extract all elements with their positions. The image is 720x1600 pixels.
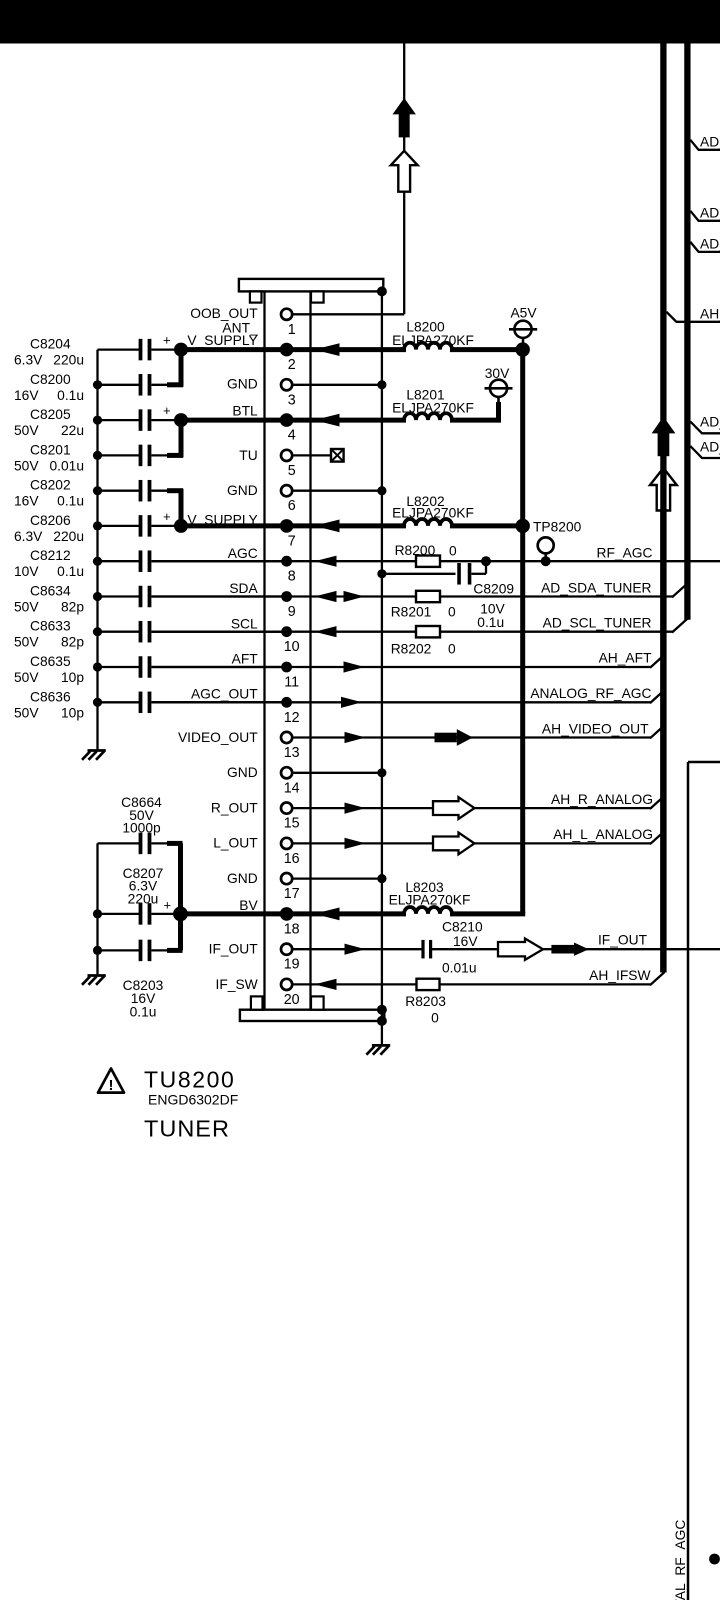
node GND label pin17 [227,871,258,886]
svg-text:12: 12 [284,710,300,726]
pin 3 [281,379,296,408]
wire IF_OUT row [283,948,720,950]
warning symbol [98,1069,124,1095]
pin 20 [281,979,300,1008]
junction BTL [174,413,188,427]
svg-text:2: 2 [288,357,296,373]
svg-text:ELJPA270KF: ELJPA270KF [392,401,474,416]
capacitor C8200 [14,372,150,403]
svg-text:C8212: C8212 [30,548,71,563]
svg-text:82p: 82p [61,600,84,615]
wire pin3 to GND bus [283,384,382,386]
wire row 10 cap to pin [152,631,287,633]
svg-text:AH_VID: AH_VID [700,306,720,321]
node L_OUT label [213,836,258,851]
svg-text:0.1u: 0.1u [130,1005,157,1020]
wire ANT_V_SUPPLY (pin2 to L8200) [181,347,523,352]
connector bottom notch left [251,996,263,1009]
svg-text:C8200: C8200 [30,372,71,387]
svg-text:R8203: R8203 [405,994,446,1009]
svg-text:AGC_OUT: AGC_OUT [191,686,258,701]
wire AGC_OUT row [152,690,665,703]
svg-text:5: 5 [288,463,296,479]
svg-text:50V: 50V [14,458,39,473]
svg-text:10p: 10p [61,705,84,720]
wire SCL row [152,619,688,633]
block arrow L audio (open) [433,833,474,855]
part number ENGD6302DF [148,1092,238,1108]
wire IF_SW row [283,972,665,985]
pin 13 [281,732,300,761]
svg-text:C8201: C8201 [30,442,71,457]
node GND label pin14 [227,765,258,780]
bus AD signals (right) [684,43,690,620]
wire pin5 to TU termination [283,454,332,456]
junction GND bottom bar top [377,1005,387,1015]
svg-text:16V: 16V [14,388,39,403]
junction A5V / L8200 [516,342,530,356]
node AD tap 1 [690,134,720,150]
capacitor C8209 [382,561,514,630]
wire C8204 to ANT_V_SUPPLY node [152,348,182,350]
inductor L8200 [392,319,474,349]
svg-text:10V: 10V [14,564,39,579]
pin 6 [281,485,296,514]
svg-text:A5V: A5V [510,306,537,321]
arrow into pin10 [315,626,337,637]
svg-text:!: ! [109,1077,114,1094]
svg-text:22u: 22u [61,423,84,438]
svg-text:RF_AGC: RF_AGC [597,546,653,561]
svg-text:VIDEO_OUT: VIDEO_OUT [178,730,258,745]
svg-text:0: 0 [431,1011,439,1026]
node AD tap 5 [690,440,720,459]
ground [366,1045,390,1054]
pin 1 [281,309,296,338]
svg-text:GND: GND [227,376,258,391]
ground [82,976,106,985]
svg-text:50V: 50V [14,705,39,720]
wire BTL (pin4 to L8201) [181,418,501,423]
node SDA label [229,581,258,596]
node BV label [239,898,258,913]
svg-text:GND: GND [227,765,258,780]
pin 12 [281,697,299,726]
svg-text:GND: GND [227,483,258,498]
junction BV [173,907,188,922]
svg-text:15: 15 [284,816,300,832]
svg-text:SCL: SCL [231,616,258,631]
node GND label pin6 [227,483,258,498]
wire pin17 to GND bus [283,877,382,879]
GND bus wire inside connector [381,291,383,1045]
node AFT label [232,652,259,667]
svg-text:18: 18 [284,921,300,937]
node AH_R_ANALOG label [551,792,653,807]
svg-text:50V: 50V [14,423,39,438]
power A5V [509,306,537,350]
capacitor C8634 [14,584,150,615]
svg-text:AGC: AGC [228,546,258,561]
node IF_SW label [216,977,258,992]
arrow out of pin19 [345,944,366,955]
wire L_OUT row [283,831,665,844]
wire AFT row [152,655,665,668]
svg-text:8: 8 [288,569,296,585]
arrow out of pin12 [341,697,362,708]
wire C8200 elbow to ANT_V_SUPPLY node [152,350,184,387]
svg-text:TUNER: TUNER [144,1116,230,1142]
svg-text:30V: 30V [485,366,510,381]
svg-text:50V: 50V [14,635,39,650]
svg-text:C8635: C8635 [30,654,71,669]
junction ANT_V_SUPPLY [174,343,188,357]
test point TP8200 [533,520,582,562]
svg-text:AFT: AFT [232,652,259,667]
svg-text:+: + [163,333,171,348]
svg-text:0.1u: 0.1u [57,388,84,403]
bus AH signals (left) [660,43,666,972]
svg-text:20: 20 [284,992,300,1008]
node TU label [239,448,257,463]
node SCL label [231,616,258,631]
node ANT_V_SUPPLY label [187,320,258,348]
svg-text:C8633: C8633 [30,619,71,634]
svg-text:+: + [163,509,171,524]
svg-text:6.3V: 6.3V [14,353,43,368]
block arrow IF out (open) [498,939,543,960]
node V_SUPPLY label [187,512,257,527]
wire row 11 cap to pin [152,666,287,668]
svg-text:220u: 220u [53,529,84,544]
svg-text:AD_SCL: AD_SCL [700,440,720,455]
svg-text:C8206: C8206 [30,513,71,528]
capacitor C8206 [14,509,171,544]
svg-text:AH_R_ANALOG: AH_R_ANALOG [551,792,653,807]
node AD tap 3 [690,236,720,252]
node AGC_OUT label [191,686,258,701]
arrow into pin2 [314,343,340,356]
bus AH segment over arrow [660,470,666,972]
termination TU (boxed X) [331,449,344,462]
wire row 8 cap to pin [152,560,287,562]
sheet border bar [0,0,720,44]
junction GND top [377,286,387,296]
svg-text:IF_SW: IF_SW [216,977,258,992]
node AH_AFT label [599,651,652,666]
ground rail (left capacitor bank) [93,350,102,750]
svg-text:14: 14 [284,780,300,796]
wire AGC row (pin8 to RF_AGC) [152,560,720,562]
junction (IF block, edge) [709,1554,720,1565]
node AH tap [666,306,720,322]
arrow into pin20 [315,979,337,990]
svg-text:AD_SCL: AD_SCL [700,205,720,220]
arrow up filled (AH bus) [652,417,676,457]
inductor L8201 [392,388,474,421]
pin 18 [280,907,300,937]
junction GND bottom bar bottom [377,1016,387,1026]
component TUNER name [144,1116,230,1142]
pin 5 [281,450,296,479]
pin 2 [280,343,296,373]
capacitor C8635 [14,654,150,685]
svg-text:50V: 50V [14,670,39,685]
svg-text:C8205: C8205 [30,407,71,422]
arrow up filled (OOB feed) [393,98,416,137]
pin 15 [281,803,300,832]
block arrow R audio (open) [433,797,474,819]
capacitor C8207 [98,866,172,925]
resistor R8202 [391,626,456,657]
arrow out of pin9 [344,591,365,602]
wire C8664/C8203 elbow to BV node [152,843,183,950]
svg-text:AH_IFSW: AH_IFSW [589,968,650,983]
node ANALOG_RF_AGC vertical label [673,1520,688,1600]
svg-text:3: 3 [288,392,296,408]
pin 17 [281,873,300,902]
pin 14 [281,767,300,796]
wire row 12 cap to pin [152,701,287,703]
svg-text:17: 17 [284,886,300,902]
node AH_IFSW label [589,968,650,983]
svg-text:6.3V: 6.3V [14,529,43,544]
capacitor C8664 [98,795,163,854]
svg-text:C8209: C8209 [473,582,514,597]
capacitor C8633 [14,619,150,650]
capacitor C8636 [14,689,150,720]
ground rail (BV capacitor group) [93,843,102,975]
svg-text:7: 7 [288,533,296,549]
capacitor C8204 [14,333,171,368]
svg-text:L_OUT: L_OUT [213,836,258,851]
node ANALOG_RF_AGC label [530,686,651,701]
capacitor C8202 [14,478,150,509]
block arrow IF out (solid) [551,943,588,956]
svg-text:10p: 10p [61,670,84,685]
svg-text:0.1u: 0.1u [57,564,84,579]
svg-text:0.01u: 0.01u [49,458,84,473]
pin 4 [280,413,296,443]
svg-text:0: 0 [448,605,456,620]
svg-text:ELJPA270KF: ELJPA270KF [392,506,474,521]
svg-text:0: 0 [448,642,456,657]
svg-text:IF_OUT: IF_OUT [598,933,648,948]
node AD_SDA_TUNER label [541,581,651,596]
svg-text:C8202: C8202 [30,478,71,493]
wire C8201 elbow to BTL node [152,420,184,457]
junction GND pin14 [377,768,386,777]
svg-text:0.01u: 0.01u [442,961,477,976]
svg-text:C8634: C8634 [30,584,71,599]
connector bottom bar [240,1010,384,1021]
svg-text:BV: BV [239,898,258,913]
node AH_L_ANALOG label [553,827,653,842]
svg-text:TU: TU [239,448,257,463]
node R_OUT label [211,800,258,815]
node AD tap 2 [690,205,720,221]
capacitor C8212 [14,548,150,579]
capacitor C8210 [423,920,483,976]
component TU8200 designator [144,1067,235,1093]
node VIDEO_OUT label [178,730,258,745]
wire VIDEO_OUT row [283,725,665,738]
svg-text:R8202: R8202 [391,642,432,657]
pin 19 [281,944,300,973]
svg-text:ELJPA270KF: ELJPA270KF [392,333,474,348]
svg-text:C8204: C8204 [30,337,71,352]
wire pin6 to GND bus [283,490,382,492]
junction GND C8209 [377,569,386,578]
svg-text:AD_SDA_TUNER: AD_SDA_TUNER [541,581,651,596]
junction C8209 / RF_AGC [481,556,491,566]
svg-text:SDA: SDA [229,581,258,596]
svg-text:AD_SDA: AD_SDA [700,414,720,429]
pin 9 [281,591,296,620]
svg-text:11: 11 [284,675,299,691]
inductor L8203 [389,880,471,914]
arrow up open (AH bus) [650,468,677,511]
svg-text:AH_AFT: AH_AFT [599,651,652,666]
wire A5V supply vertical [520,350,525,914]
svg-text:AH_L_ANALOG: AH_L_ANALOG [553,827,653,842]
svg-text:13: 13 [284,745,300,761]
svg-text:50V: 50V [14,600,39,615]
wire R_OUT row [283,796,665,809]
junction GND pin17 [377,874,386,883]
node AH_VIDEO_OUT label [542,722,649,737]
arrow into pin8 [315,556,337,567]
arrow into pin18 [314,908,340,921]
arrow up open (OOB feed) [391,151,418,192]
node AGC label [228,546,258,561]
capacitor C8203 [98,940,164,1020]
resistor R8200 [395,543,457,567]
power 30V [485,366,513,422]
wire C8202 elbow to V_SUPPLY node [152,489,184,526]
node IF_OUT label [598,933,648,948]
node IF_OUT label pin [209,942,259,957]
node GND label pin3 [227,376,258,391]
wire BV (pin18 to L8203) [181,911,526,916]
pin 16 [281,838,300,867]
arrow into pin4 [314,414,340,427]
svg-text:R8201: R8201 [391,605,432,620]
svg-text:AD_SDA: AD_SDA [700,236,720,251]
arrow out of pin15 [345,803,366,814]
node OOB_OUT label [190,306,258,321]
pin 11 [281,662,299,691]
svg-text:16V: 16V [14,494,39,509]
connector top notch right [311,291,324,302]
ground [82,751,106,760]
capacitor C8201 [14,442,150,473]
svg-text:TP8200: TP8200 [533,520,582,535]
connector pin strip left edge [263,291,265,1009]
junction TP8200 / RF_AGC [541,556,551,566]
svg-text:220u: 220u [53,353,84,368]
arrow into pin7 [314,520,340,533]
arrow out of pin13 [345,732,366,743]
wire C8205 to BTL node [152,419,182,421]
svg-text:TU8200: TU8200 [144,1067,235,1093]
svg-text:19: 19 [284,957,300,973]
svg-text:R8200: R8200 [395,543,436,558]
svg-text:AD_SDA: AD_SDA [700,134,720,149]
junction GND pin3 [377,380,386,389]
svg-text:C8636: C8636 [30,689,71,704]
connector bottom notch right [311,996,324,1009]
svg-text:ELJPA270KF: ELJPA270KF [389,893,471,908]
capacitor C8205 [14,403,171,438]
pin 7 [280,519,296,549]
wire OOB_OUT pin1 riser [283,43,405,314]
pin 8 [281,556,296,585]
connector top notch left [250,291,262,302]
arrow into pin9 [315,591,337,602]
arrow out of pin11 [344,661,365,672]
svg-text:ENGD6302DF: ENGD6302DF [148,1092,238,1108]
svg-text:BTL: BTL [232,403,258,418]
svg-text:10: 10 [284,639,300,655]
svg-text:DIGITAL_RF_AGC: DIGITAL_RF_AGC [673,1520,688,1600]
svg-text:AD_SCL_TUNER: AD_SCL_TUNER [543,616,652,631]
svg-text:9: 9 [288,604,296,620]
svg-text:0.1u: 0.1u [57,494,84,509]
resistor R8203 [405,979,446,1026]
node AD tap 4 [690,414,720,433]
svg-text:ANALOG_RF_AGC: ANALOG_RF_AGC [530,686,651,701]
svg-text:+: + [163,403,171,418]
svg-text:C8210: C8210 [442,920,483,935]
node AD_SCL_TUNER label [543,616,652,631]
svg-text:IF_OUT: IF_OUT [209,942,259,957]
pin 10 [281,626,299,655]
svg-text:V_SUPPLY: V_SUPPLY [187,333,257,348]
svg-text:16V: 16V [453,934,478,949]
wire pin14 to GND bus [283,772,382,774]
svg-text:V_SUPPLY: V_SUPPLY [187,512,257,527]
svg-text:AH_VIDEO_OUT: AH_VIDEO_OUT [542,722,649,737]
junction GND pin6 [377,486,386,495]
wire row 9 cap to pin [152,595,287,597]
svg-text:4: 4 [288,428,296,444]
svg-text:GND: GND [227,871,258,886]
junction L8202 / supply [516,519,530,533]
IF block outline [688,762,720,1600]
svg-text:220u: 220u [128,892,159,907]
arrow out of pin16 [345,838,366,849]
node RF_AGC label [597,546,653,561]
svg-text:16: 16 [284,851,300,867]
svg-text:6: 6 [288,498,296,514]
block arrow video out (solid) [435,729,473,746]
svg-text:0: 0 [449,544,457,559]
svg-text:1000p: 1000p [122,821,161,836]
inductor L8202 [392,494,474,526]
svg-text:OOB_OUT: OOB_OUT [190,306,258,321]
connector pin strip right edge [309,291,311,1009]
svg-text:82p: 82p [61,635,84,650]
wire C8206 to V_SUPPLY node [152,525,182,527]
connector TU8200 top bar [239,279,383,292]
svg-text:+: + [164,898,172,913]
svg-text:R_OUT: R_OUT [211,800,258,815]
resistor R8201 [391,591,456,620]
wire SDA row [152,583,688,597]
junction V_SUPPLY [174,519,188,533]
wire V_SUPPLY (pin7 to L8202) [181,523,523,528]
